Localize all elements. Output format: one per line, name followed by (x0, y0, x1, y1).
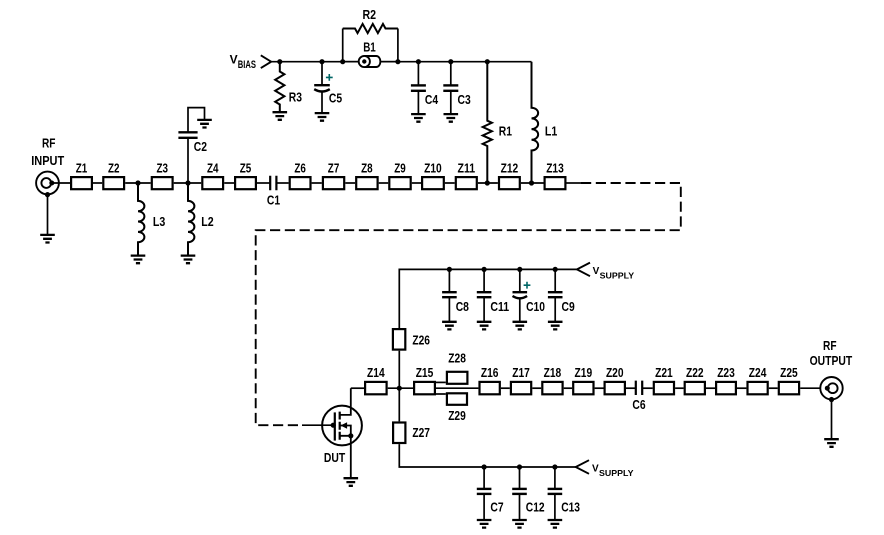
ground R3 (273, 112, 288, 120)
node L3 junction (135, 180, 140, 185)
label Z4 (207, 160, 219, 175)
node R2-B1 left junction (340, 59, 345, 64)
wire Z25 to output connector (800, 387, 820, 389)
transmission line element Z21 (654, 382, 674, 394)
label VBIAS V (230, 52, 238, 66)
capacitor C9 (548, 269, 563, 321)
label VBIAS subscript BIAS (238, 59, 256, 71)
label C2 (194, 139, 207, 154)
svg-text:Z21: Z21 (655, 365, 673, 380)
label R2 (363, 7, 377, 22)
capacitor C11 (477, 269, 492, 321)
label VSUPPLY top V (593, 266, 600, 277)
svg-text:Z2: Z2 (108, 160, 120, 175)
label Z5 (240, 160, 252, 175)
inductor L1 (532, 62, 539, 183)
svg-text:Z8: Z8 (361, 160, 373, 175)
svg-text:Z1: Z1 (76, 160, 88, 175)
wire Z20-C6 (626, 387, 636, 389)
label Z20 (606, 365, 624, 380)
node C5 junction (319, 59, 324, 64)
ground C5 (315, 113, 330, 121)
wire C1-Z6 (276, 182, 288, 184)
dashed wire Z13 to DUT gate (256, 183, 681, 425)
label Z8 (361, 160, 373, 175)
svg-text:Z24: Z24 (749, 365, 767, 380)
wire Z15 to Z16 (main) (436, 387, 478, 389)
label Z7 (328, 160, 340, 175)
wire Z10-Z11 (445, 182, 455, 184)
RF output connector (820, 377, 842, 399)
ground L3 (131, 256, 146, 264)
capacitor C4 (411, 62, 426, 114)
label C3 (458, 92, 471, 107)
wire DUT drain to Z14 (351, 387, 364, 389)
wire stub to Z29 (436, 393, 446, 395)
wire Z7-Z8 (345, 182, 355, 184)
transmission line element Z16 (480, 382, 500, 394)
svg-text:Z29: Z29 (448, 408, 466, 423)
svg-text:BIAS: BIAS (238, 59, 256, 71)
label R3 (289, 90, 302, 105)
label Z3 (156, 160, 168, 175)
label Z16 (481, 365, 499, 380)
label L1 (545, 124, 557, 139)
label Z1 (76, 160, 88, 175)
ground C12 (512, 520, 527, 528)
label Z2 (108, 160, 120, 175)
svg-text:SUPPLY: SUPPLY (599, 468, 634, 478)
label C13 (561, 500, 580, 515)
plus sign C5 (326, 74, 333, 81)
svg-text:C10: C10 (526, 299, 545, 314)
transmission line element Z20 (605, 382, 625, 394)
svg-text:SUPPLY: SUPPLY (600, 271, 635, 281)
svg-text:Z17: Z17 (512, 365, 530, 380)
transmission line element Z25 (779, 382, 799, 394)
transmission line element Z6 (290, 177, 311, 189)
label C5 (329, 91, 342, 106)
label Z25 (780, 365, 798, 380)
capacitor C12 (512, 467, 527, 520)
svg-text:C5: C5 (329, 91, 342, 106)
label Z23 (717, 365, 735, 380)
wire Z27 to bottom rail (399, 444, 575, 467)
wire C6-Z21 (642, 387, 653, 389)
svg-text:Z18: Z18 (544, 365, 562, 380)
wire Z9-Z10 (412, 182, 421, 184)
bias rail wire (271, 61, 531, 63)
ground L2 (181, 256, 196, 264)
transmission line element Z8 (356, 177, 377, 189)
wire Z1-Z2 (93, 182, 102, 184)
node center junction Z26/Z27 (397, 386, 402, 391)
svg-text:Z11: Z11 (458, 160, 476, 175)
label OUTPUT line2 (810, 353, 853, 368)
label Z28 (448, 350, 466, 365)
label Z9 (394, 160, 406, 175)
wire Z18-Z19 (564, 387, 572, 389)
svg-text:B1: B1 (363, 40, 376, 55)
svg-text:C12: C12 (526, 500, 545, 515)
bias element Z26 (vertical) (393, 329, 405, 350)
bias element Z27 (vertical) (393, 423, 405, 444)
transmission line element Z17 (511, 382, 531, 394)
node C7 junction (482, 464, 487, 469)
svg-text:RF: RF (823, 338, 837, 353)
node C11 junction (482, 267, 487, 272)
label Z12 (501, 160, 519, 175)
transmission line element Z15 (414, 382, 435, 394)
svg-text:C9: C9 (562, 299, 575, 314)
label RF (input) line1 (42, 135, 56, 150)
label L3 (153, 214, 165, 229)
ground C11 (477, 322, 492, 330)
wire Z24-Z25 (769, 387, 778, 389)
label Z11 (458, 160, 476, 175)
label Z18 (544, 365, 562, 380)
transmission line element Z5 (235, 177, 256, 189)
svg-text:Z9: Z9 (394, 160, 406, 175)
wire input connector to ground (47, 195, 49, 235)
svg-text:Z15: Z15 (416, 365, 434, 380)
svg-text:C2: C2 (194, 139, 207, 154)
wire Z5-C1 (257, 182, 270, 184)
wire R2 right leg (397, 29, 399, 62)
ground C7 (477, 520, 492, 528)
transmission line element Z9 (389, 177, 410, 189)
svg-text:C13: C13 (561, 500, 580, 515)
transmission line element Z7 (323, 177, 344, 189)
wire Z23-Z24 (737, 387, 746, 389)
transmission line element Z2 (103, 177, 124, 189)
svg-text:V: V (592, 464, 599, 475)
label C11 (490, 299, 509, 314)
wire Z13 to dashed (567, 182, 582, 184)
resistor R3 (275, 62, 284, 112)
label Z15 (416, 365, 434, 380)
transmission line element Z4 (202, 177, 223, 189)
wire Z2-Z3 (via L3 node) (125, 182, 151, 184)
VSUPPLY top arrow (577, 263, 590, 277)
label Z26 (412, 332, 430, 347)
label VSUPPLY bottom V (592, 464, 599, 475)
transmission line element Z10 (422, 177, 444, 189)
node L1 bottom junction (529, 180, 534, 185)
label DUT (324, 450, 345, 465)
node R1 top junction (485, 59, 490, 64)
svg-text:Z6: Z6 (294, 160, 306, 175)
svg-text:R3: R3 (289, 90, 302, 105)
wire Z3-Z4 (via C2/L2 node) (174, 182, 202, 184)
label VSUPPLY top subscript (600, 271, 635, 281)
node DUT gate junction (331, 423, 336, 428)
label Z22 (686, 365, 704, 380)
wire stub to Z28 (436, 381, 446, 383)
svg-text:C8: C8 (456, 299, 469, 314)
label C4 (425, 92, 439, 107)
svg-text:Z12: Z12 (501, 160, 519, 175)
svg-text:Z10: Z10 (424, 160, 442, 175)
svg-text:DUT: DUT (324, 450, 345, 465)
svg-text:Z3: Z3 (156, 160, 168, 175)
svg-text:V: V (593, 266, 600, 277)
ground C4 (411, 114, 426, 122)
label Z19 (575, 365, 593, 380)
transmission line element Z19 (573, 382, 593, 394)
svg-text:Z26: Z26 (412, 332, 430, 347)
ground C3 (444, 114, 459, 122)
capacitor C2 (to ground above) (178, 108, 204, 183)
label INPUT line2 (31, 153, 64, 168)
label L2 (201, 214, 213, 229)
label VSUPPLY bottom subscript (599, 468, 634, 478)
label C6 (632, 397, 645, 412)
svg-text:C11: C11 (490, 299, 509, 314)
node VBIAS junction R3 (277, 59, 282, 64)
wire input connector to Z1 (52, 182, 70, 184)
label RF (output) line1 (823, 338, 837, 353)
open stub element Z29 (447, 393, 467, 405)
svg-text:RF: RF (42, 135, 56, 150)
svg-text:C3: C3 (458, 92, 471, 107)
ground C2 (197, 120, 212, 128)
wire Z22-Z23 (706, 387, 715, 389)
capacitor C10 (polarized) (513, 269, 528, 321)
svg-text:Z13: Z13 (546, 160, 564, 175)
transmission line element Z1 (71, 177, 92, 189)
node C3 junction (448, 59, 453, 64)
label Z24 (749, 365, 767, 380)
label C12 (526, 500, 545, 515)
label Z29 (448, 408, 466, 423)
wire Z16-Z17 (501, 387, 510, 389)
wire center junction down to Z27 (398, 388, 400, 421)
wire center junction up to Z26 (398, 351, 400, 389)
svg-text:Z14: Z14 (367, 365, 385, 380)
transistor DUT (MOSFET) (322, 388, 362, 478)
capacitor C1 (series) (270, 176, 276, 190)
ground C10 (513, 322, 528, 330)
svg-text:Z23: Z23 (717, 365, 735, 380)
node output connector ground junction (829, 397, 834, 402)
node C8 junction (447, 267, 452, 272)
resistor R2 (343, 24, 398, 33)
ground RF output (824, 439, 839, 447)
wire R2 left leg (342, 29, 344, 62)
RF input connector (36, 172, 59, 195)
capacitor C3 (443, 62, 458, 114)
svg-text:Z27: Z27 (412, 425, 430, 440)
wire Z26 to top rail (399, 269, 577, 328)
svg-text:Z22: Z22 (686, 365, 704, 380)
ground C8 (442, 322, 457, 330)
capacitor C8 (442, 269, 457, 321)
capacitor C7 (477, 467, 492, 520)
ground DUT source (344, 478, 359, 486)
capacitor C6 (series) (636, 381, 642, 395)
ferrite bead B1 (343, 56, 398, 67)
capacitor C13 (548, 467, 563, 520)
label C10 (526, 299, 545, 314)
svg-text:L3: L3 (153, 214, 165, 229)
wire Z4-Z5 (224, 182, 234, 184)
transmission line element Z18 (542, 382, 562, 394)
label Z13 (546, 160, 564, 175)
svg-text:Z25: Z25 (780, 365, 798, 380)
svg-text:R2: R2 (363, 7, 377, 22)
ground C9 (548, 322, 563, 330)
wire Z12-Z13 (via L1 node) (521, 182, 544, 184)
svg-text:Z20: Z20 (606, 365, 624, 380)
svg-text:C4: C4 (425, 92, 439, 107)
wire gate lead solid (302, 424, 335, 426)
node C4 junction (416, 59, 421, 64)
svg-text:C6: C6 (632, 397, 645, 412)
inductor L3 (138, 183, 144, 256)
node input connector ground junction (45, 192, 50, 197)
wire output connector to ground (831, 400, 833, 440)
wire Z21-Z22 (675, 387, 684, 389)
open stub element Z28 (447, 372, 468, 384)
svg-text:C1: C1 (267, 192, 280, 207)
ground C13 (548, 520, 563, 528)
transmission line element Z14 (365, 382, 387, 394)
node C2/L2 junction (185, 180, 190, 185)
label R1 (499, 124, 512, 139)
inductor L2 (188, 183, 194, 256)
label B1 (363, 40, 376, 55)
resistor R1 (483, 62, 492, 183)
wire Z17-Z18 (532, 387, 541, 389)
transmission line element Z13 (545, 177, 566, 189)
svg-text:Z19: Z19 (575, 365, 593, 380)
svg-text:C7: C7 (490, 500, 503, 515)
label C7 (490, 500, 503, 515)
node R1 bottom junction (485, 180, 490, 185)
label Z27 (412, 425, 430, 440)
ground RF input (40, 235, 55, 243)
label C9 (562, 299, 575, 314)
wire Z14 to center junction (388, 387, 413, 389)
svg-text:Z5: Z5 (240, 160, 252, 175)
transmission line element Z12 (499, 177, 520, 189)
svg-text:V: V (230, 52, 238, 66)
svg-text:INPUT: INPUT (31, 153, 64, 168)
VBIAS arrow (261, 55, 271, 68)
node C13 junction (552, 464, 557, 469)
label Z21 (655, 365, 673, 380)
svg-text:Z16: Z16 (481, 365, 499, 380)
wire Z19-Z20 (595, 387, 604, 389)
transmission line element Z3 (152, 177, 173, 189)
label Z14 (367, 365, 385, 380)
VSUPPLY bottom arrow (576, 460, 589, 474)
transmission line element Z22 (685, 382, 705, 394)
node R2-B1 right junction (395, 59, 400, 64)
transmission line element Z24 (748, 382, 768, 394)
plus sign C10 (524, 282, 531, 289)
node DUT source-body junction (348, 433, 353, 438)
transmission line element Z23 (716, 382, 736, 394)
svg-text:L2: L2 (201, 214, 213, 229)
node C9 junction (553, 267, 558, 272)
svg-text:Z28: Z28 (448, 350, 466, 365)
label Z10 (424, 160, 442, 175)
label C8 (456, 299, 469, 314)
wire Z11-Z12 (via R1 node) (478, 182, 498, 184)
wire Z8-Z9 (379, 182, 389, 184)
node C12 junction (517, 464, 522, 469)
node C10 junction (517, 267, 522, 272)
transmission line element Z11 (456, 177, 477, 189)
capacitor C5 (polarized) (314, 62, 330, 113)
svg-text:R1: R1 (499, 124, 512, 139)
svg-text:OUTPUT: OUTPUT (810, 353, 853, 368)
label Z6 (294, 160, 306, 175)
svg-text:L1: L1 (545, 124, 557, 139)
svg-text:Z7: Z7 (328, 160, 340, 175)
label Z17 (512, 365, 530, 380)
svg-text:Z4: Z4 (207, 160, 219, 175)
wire Z6-Z7 (312, 182, 322, 184)
label C1 (267, 192, 280, 207)
